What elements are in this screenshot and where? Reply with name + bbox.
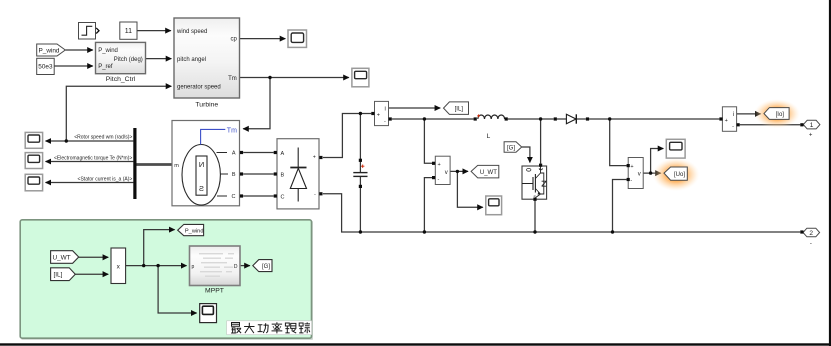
svg-text:1: 1 xyxy=(810,122,814,129)
svg-text:D: D xyxy=(234,264,238,270)
svg-text:[G]: [G] xyxy=(262,264,270,270)
svg-text:[G]: [G] xyxy=(507,145,515,151)
svg-text:i: i xyxy=(384,107,385,113)
svg-text:P_wind: P_wind xyxy=(185,228,204,234)
svg-text:<Rotor speed wm (rad/s)>: <Rotor speed wm (rad/s)> xyxy=(74,135,132,141)
svg-text:MPPT: MPPT xyxy=(205,288,224,295)
svg-text:Pitch (deg): Pitch (deg) xyxy=(114,57,143,63)
svg-text:generator speed: generator speed xyxy=(177,84,221,90)
svg-text:A: A xyxy=(281,151,285,157)
svg-text:+: + xyxy=(630,164,633,170)
svg-text:p: p xyxy=(192,264,195,270)
svg-text:C: C xyxy=(281,194,285,200)
svg-text:B: B xyxy=(281,172,285,178)
svg-text:-: - xyxy=(438,176,440,182)
svg-text:U_WT: U_WT xyxy=(53,254,71,261)
svg-text:2: 2 xyxy=(809,230,813,237)
svg-text:i: i xyxy=(733,112,734,118)
svg-text:[IL]: [IL] xyxy=(54,272,63,279)
svg-text:P_wind: P_wind xyxy=(98,48,118,54)
svg-text:Tm: Tm xyxy=(228,76,237,82)
svg-text:pitch angel: pitch angel xyxy=(177,57,206,63)
svg-text:A: A xyxy=(232,151,236,157)
svg-text:P_ref: P_ref xyxy=(98,64,113,70)
svg-text:50e3: 50e3 xyxy=(38,64,53,71)
svg-text:[Io]: [Io] xyxy=(776,112,785,118)
svg-text:Turbine: Turbine xyxy=(195,101,218,108)
svg-text:+: + xyxy=(809,133,813,139)
svg-text:m: m xyxy=(174,163,179,169)
svg-text:P_wind: P_wind xyxy=(39,47,60,54)
svg-text:-: - xyxy=(630,178,632,184)
svg-text:v: v xyxy=(445,170,448,176)
svg-text:[Uo]: [Uo] xyxy=(674,172,685,178)
svg-text:cp: cp xyxy=(230,37,237,43)
svg-text:+: + xyxy=(438,162,441,168)
svg-text:-: - xyxy=(810,241,812,247)
svg-text:11: 11 xyxy=(125,28,132,35)
svg-text:<Stator current is_a (A)>: <Stator current is_a (A)> xyxy=(78,177,133,183)
svg-text:<Electromagnetic torque Te (N*: <Electromagnetic torque Te (N*m)> xyxy=(54,156,132,162)
svg-text:B: B xyxy=(232,172,236,178)
svg-text:-: - xyxy=(732,124,734,130)
svg-text:C: C xyxy=(232,194,236,200)
svg-text:+: + xyxy=(377,113,380,119)
svg-text:+: + xyxy=(725,118,728,124)
svg-text:Pitch_Ctrl: Pitch_Ctrl xyxy=(106,76,136,83)
svg-text:-: - xyxy=(384,118,386,124)
svg-text:[IL]: [IL] xyxy=(455,107,464,113)
svg-text:L: L xyxy=(487,133,491,140)
svg-text:N: N xyxy=(199,160,204,169)
svg-text:wind speed: wind speed xyxy=(176,29,207,35)
svg-text:+: + xyxy=(313,155,316,161)
svg-text:Tm: Tm xyxy=(227,127,237,134)
svg-text:U_WT: U_WT xyxy=(480,170,497,176)
svg-text:v: v xyxy=(638,172,641,178)
svg-text:S: S xyxy=(199,184,204,193)
